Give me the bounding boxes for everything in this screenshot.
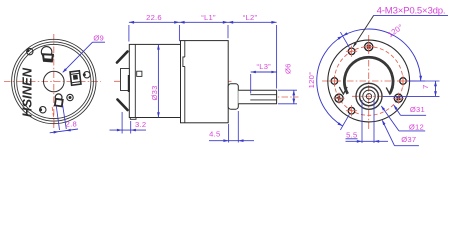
svg-text:“L1”: “L1” [201, 13, 216, 22]
svg-text:120°: 120° [307, 72, 316, 89]
svg-text:Ø9: Ø9 [93, 33, 104, 42]
svg-text:2.8: 2.8 [66, 120, 77, 129]
svg-text:HSINEN: HSINEN [20, 67, 35, 117]
svg-text:7: 7 [421, 84, 430, 88]
svg-text:Ø37: Ø37 [401, 135, 416, 144]
svg-text:Ø6: Ø6 [283, 63, 292, 74]
svg-text:“L3”: “L3” [256, 62, 271, 71]
svg-text:22.6: 22.6 [146, 13, 162, 22]
svg-text:Ø31: Ø31 [410, 105, 425, 114]
svg-text:Ø33: Ø33 [150, 85, 159, 100]
svg-text:3.2: 3.2 [135, 120, 146, 129]
svg-text:4.5: 4.5 [209, 129, 220, 138]
svg-text:Ø12: Ø12 [409, 122, 424, 131]
svg-text:“L2”: “L2” [243, 13, 258, 22]
svg-text:5.5: 5.5 [346, 130, 357, 139]
